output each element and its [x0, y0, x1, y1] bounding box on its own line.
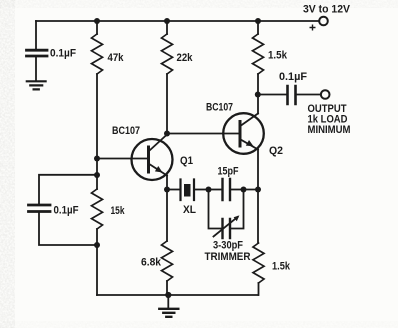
transistor Q1 BC107	[132, 135, 173, 181]
svg-text:3-30pF: 3-30pF	[213, 240, 243, 252]
wire R1 to Q1 base node	[96, 74, 98, 159]
svg-text:XL: XL	[183, 204, 196, 216]
wire C3 to right node	[231, 189, 244, 191]
polarity plus mark	[310, 25, 315, 30]
wire left capacitor branch from rail	[35, 21, 37, 49]
wire crystal node to R4	[166, 190, 168, 242]
node Q1 base junction	[94, 156, 100, 162]
node junction top rail / 1.5k	[255, 18, 261, 24]
wire rail to R5	[257, 21, 259, 34]
wire node to C3	[209, 189, 223, 191]
wire bottom ground rail	[97, 294, 258, 296]
resistor R3 22k	[162, 34, 173, 74]
wire R4 to bottom rail	[166, 281, 168, 295]
wire Q2 emitter down to node	[257, 150, 259, 190]
wire rail to R1	[96, 21, 98, 34]
resistor R4 6.8k	[162, 241, 173, 281]
node output junction	[255, 92, 261, 98]
wire cap to output terminal	[296, 94, 321, 96]
capacitor C1 0.1uF top-left plates	[27, 50, 48, 56]
svg-text:Q1: Q1	[180, 155, 193, 167]
trimmer capacitor C4 3-30pF	[214, 215, 240, 238]
wire trimmer right branch	[231, 190, 244, 229]
svg-text:22k: 22k	[177, 52, 194, 64]
wire R3 to Q1 collector node	[166, 74, 168, 134]
svg-text:BC107: BC107	[112, 125, 140, 137]
wire top supply rail	[36, 20, 319, 22]
capacitor C2 0.1uF plates	[29, 205, 51, 212]
wire R5 to Q2 collector	[257, 74, 259, 114]
node 15pF left junction	[206, 187, 212, 193]
wire node to R2	[96, 175, 98, 189]
wire Q1 base lead	[97, 158, 148, 160]
resistor R1 47k	[92, 34, 103, 74]
wire C1 to ground	[35, 57, 37, 80]
resistor R6 1.5k bottom	[253, 243, 264, 283]
capacitor C5 0.1uF output plates	[288, 86, 296, 104]
transistor Q2 BC107	[223, 113, 264, 154]
svg-text:1.5k: 1.5k	[272, 261, 291, 273]
svg-text:TRIMMER: TRIMMER	[205, 251, 251, 263]
wire crystal to cap node	[195, 189, 209, 191]
svg-text:6.8k: 6.8k	[141, 257, 162, 269]
node Q1 collector junction	[164, 131, 170, 137]
wire R6 to bottom rail	[258, 283, 260, 295]
wire rail to R3	[166, 21, 168, 34]
ground symbol top-left	[27, 81, 46, 89]
wire node to crystal	[167, 189, 180, 191]
node bottom rail ground junction	[165, 292, 171, 298]
wire base node down to cap branch node	[96, 159, 98, 176]
node 15k bottom junction	[94, 242, 100, 248]
terminal output	[321, 90, 330, 99]
wire Q1 emitter to crystal node	[166, 176, 168, 190]
node cap branch junction	[94, 172, 100, 178]
svg-text:1.5k: 1.5k	[268, 50, 288, 62]
wire cap branch top horizontal	[39, 175, 97, 204]
node junction top rail / 22k	[164, 18, 170, 24]
node crystal left junction	[164, 187, 170, 193]
svg-text:0.1µF: 0.1µF	[279, 71, 307, 83]
wire node to Q2 emitter branch	[244, 189, 259, 191]
svg-text:MINIMUM: MINIMUM	[308, 124, 351, 136]
wire R2 to bottom rail	[96, 229, 98, 295]
terminal power supply	[319, 17, 328, 26]
capacitor C3 15pF	[223, 179, 231, 200]
svg-text:0.1µF: 0.1µF	[50, 48, 76, 60]
node 15pF right junction	[241, 187, 247, 193]
svg-text:47k: 47k	[108, 52, 125, 64]
wire cap branch bottom horizontal	[39, 213, 97, 246]
wire output cap feed	[258, 94, 287, 96]
resistor R5 1.5k	[253, 34, 264, 74]
svg-text:15k: 15k	[111, 205, 126, 217]
svg-text:BC107: BC107	[206, 102, 233, 114]
svg-text:3V to 12V: 3V to 12V	[303, 4, 351, 16]
svg-text:15pF: 15pF	[218, 166, 239, 178]
wire trimmer left branch	[209, 190, 223, 229]
resistor R2 15k	[92, 189, 103, 229]
svg-text:Q2: Q2	[269, 145, 283, 157]
svg-text:0.1µF: 0.1µF	[54, 205, 79, 217]
node junction top rail / 47k	[94, 18, 100, 24]
crystal XL	[181, 180, 195, 201]
ground symbol bottom	[167, 295, 169, 308]
node Q2 emitter junction	[255, 187, 261, 193]
wire node to R6	[257, 190, 259, 244]
wire collector node to Q2 base	[167, 133, 240, 135]
